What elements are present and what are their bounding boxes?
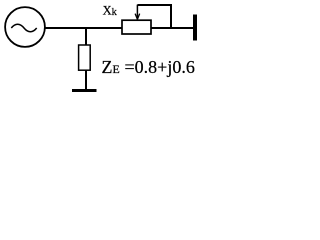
wire node A down to resistor <box>85 27 87 46</box>
ground <box>72 89 97 92</box>
wire source to node A <box>45 27 122 29</box>
svg-text:ZE=0.8+j0.6: ZE=0.8+j0.6 <box>102 57 195 77</box>
bus bar (terminal) <box>193 15 197 41</box>
arrow into reactor (tap) <box>135 5 140 20</box>
reactor Xk (series box) <box>122 20 151 34</box>
svg-text:Xk: Xk <box>103 3 118 17</box>
resistor R1 (shunt) <box>79 45 91 70</box>
wire reactor to bus <box>151 27 193 29</box>
AC source G1 <box>5 7 45 47</box>
wire resistor to ground <box>85 70 87 90</box>
bypass wire (loop over Xk) <box>137 5 171 28</box>
